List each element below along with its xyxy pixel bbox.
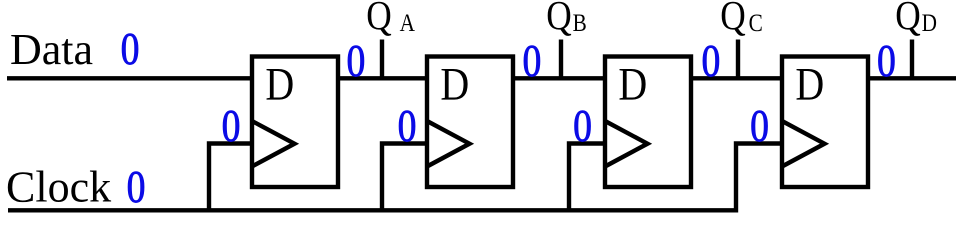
U4 clock edge triangle	[782, 121, 825, 167]
svg-text:Q: Q	[895, 0, 920, 39]
svg-text:Q: Q	[366, 0, 391, 39]
svg-text:0: 0	[398, 102, 417, 152]
svg-text:0: 0	[573, 102, 592, 152]
svg-text:A: A	[400, 9, 416, 37]
svg-text:D: D	[265, 59, 294, 111]
net label QB	[546, 0, 586, 39]
net label QD	[895, 0, 937, 39]
wire: U2 Q to U3 D	[513, 76, 605, 80]
U3 clock edge triangle	[605, 121, 648, 167]
svg-text:D: D	[440, 59, 469, 111]
flip-flop U3 box	[605, 57, 691, 188]
node QD stub	[910, 40, 914, 79]
svg-text:D: D	[618, 59, 647, 111]
svg-text:0: 0	[750, 102, 769, 152]
net label QA	[366, 0, 415, 39]
svg-text:D: D	[922, 9, 937, 37]
node QC stub	[736, 40, 740, 79]
svg-text:0: 0	[127, 163, 146, 213]
flip-flop U1 box	[252, 57, 338, 188]
svg-text:Data: Data	[10, 25, 93, 74]
node QA stub	[380, 40, 384, 79]
svg-text:Q: Q	[546, 0, 571, 39]
wire: Data input to U1 pin D	[7, 76, 252, 80]
wire: clock feed to U3	[569, 144, 605, 211]
svg-text:0: 0	[877, 37, 896, 87]
wire: U3 Q to U4 D	[691, 76, 782, 80]
svg-text:0: 0	[222, 102, 241, 152]
flip-flop U2 box	[427, 57, 513, 188]
wire: U1 Q to U2 D	[338, 76, 427, 80]
svg-text:C: C	[749, 9, 763, 37]
wire: U4 Q output	[868, 76, 956, 80]
node QB stub	[559, 40, 563, 79]
svg-text:Q: Q	[720, 0, 745, 39]
U1 clock edge triangle	[252, 121, 295, 167]
svg-text:0: 0	[523, 37, 542, 87]
wire: clock bus from Clock input to U4 clock pin	[8, 144, 782, 211]
wire: clock feed to U2	[382, 144, 427, 211]
U2 clock edge triangle	[427, 121, 470, 167]
svg-text:0: 0	[347, 37, 366, 87]
svg-text:D: D	[795, 59, 824, 111]
net label QC	[720, 0, 762, 39]
svg-text:Clock: Clock	[6, 163, 111, 212]
svg-text:B: B	[573, 9, 587, 37]
wire: clock feed to U1	[209, 144, 252, 211]
flip-flop U4 box	[782, 57, 868, 188]
svg-text:0: 0	[121, 25, 140, 75]
svg-text:0: 0	[702, 37, 721, 87]
